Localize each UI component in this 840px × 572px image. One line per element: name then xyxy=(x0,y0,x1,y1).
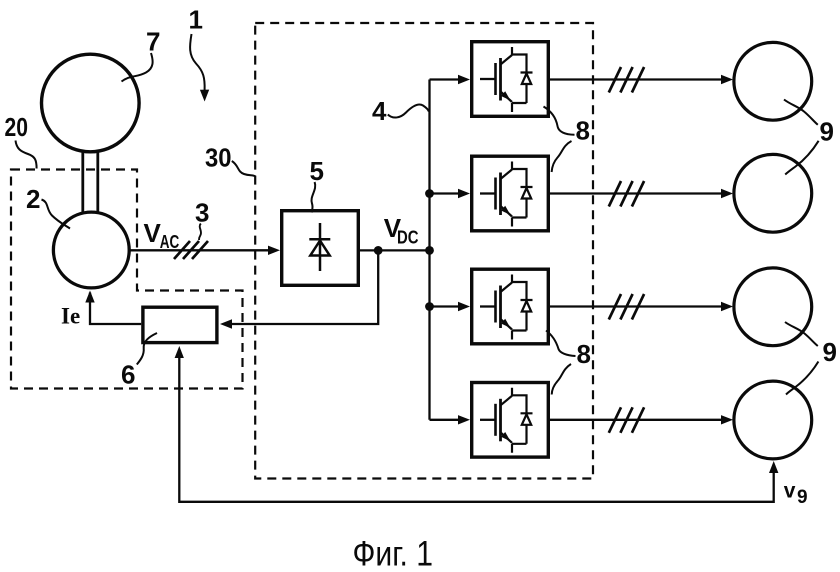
leader 8 upper to inverter U1 xyxy=(544,107,575,135)
wire bus to inverter 1 xyxy=(430,78,460,80)
slash marks on wire 1 xyxy=(609,67,644,93)
leader for 5 xyxy=(312,182,316,213)
svg-text:8: 8 xyxy=(577,339,591,369)
node VDC xyxy=(374,246,383,255)
svg-text:2: 2 xyxy=(26,184,40,214)
svg-text:Фиг. 1: Фиг. 1 xyxy=(353,535,434,572)
motor 2 (9) xyxy=(734,154,812,232)
motor 4 (9) xyxy=(734,381,812,459)
feedback wire VDC node to regulator 6 xyxy=(231,250,378,324)
rectifier 5 xyxy=(282,211,359,286)
feedback wire v9 from motor 4 to regulator 6 xyxy=(179,358,773,502)
svg-text:4: 4 xyxy=(372,96,387,126)
svg-text:DC: DC xyxy=(397,228,419,248)
slash marks on wire 4 xyxy=(609,407,644,433)
shaft xyxy=(83,151,98,212)
wire VAC from generator 2 to rectifier 5 xyxy=(131,249,269,251)
svg-text:V: V xyxy=(144,218,162,248)
svg-text:v: v xyxy=(784,480,796,503)
svg-text:1: 1 xyxy=(189,5,203,35)
dashed box 20 xyxy=(11,170,243,389)
leader for 7 xyxy=(122,53,153,82)
svg-text:9: 9 xyxy=(797,487,808,508)
wire Ie from regulator 6 to generator 2 xyxy=(90,293,141,325)
output wire inverter 1 to motor 1 xyxy=(550,78,722,80)
node on bus VDC row xyxy=(425,246,434,255)
generator 2 xyxy=(53,212,129,288)
DC bus vertical xyxy=(428,80,430,420)
node on bus row2 xyxy=(425,189,434,198)
leader for 30 xyxy=(232,161,256,177)
leader 9 upper to motor 1 xyxy=(784,100,818,125)
node on bus row3 xyxy=(425,302,434,311)
slash marks on wire 3 xyxy=(609,294,644,320)
output wire inverter 3 to motor 3 xyxy=(550,305,722,307)
svg-text:7: 7 xyxy=(146,27,160,57)
leader 9 upper to motor 2 xyxy=(785,141,818,175)
wire bus to inverter 4 xyxy=(430,419,460,421)
svg-text:Ie: Ie xyxy=(61,304,80,329)
slash marks on wire 2 xyxy=(609,181,644,207)
svg-text:20: 20 xyxy=(5,112,29,142)
leader for 20 xyxy=(16,141,37,169)
svg-text:8: 8 xyxy=(576,116,590,146)
motor 3 (9) xyxy=(734,268,812,346)
svg-text:30: 30 xyxy=(205,143,232,173)
svg-text:9: 9 xyxy=(823,337,837,367)
svg-text:9: 9 xyxy=(820,117,834,147)
svg-text:6: 6 xyxy=(121,360,135,390)
leader for 2 xyxy=(42,200,71,229)
inverter U3 (8) xyxy=(472,269,549,344)
wire bus to inverter 2 xyxy=(430,192,460,194)
output wire inverter 4 to motor 4 xyxy=(550,419,722,421)
wire bus to inverter 3 xyxy=(430,305,460,307)
leader 8 upper to inverter U2 xyxy=(552,141,572,172)
leader for 3 xyxy=(199,224,201,241)
engine 7 xyxy=(42,54,140,152)
svg-text:5: 5 xyxy=(310,156,324,186)
slash marks 3 on AC wire xyxy=(174,241,208,259)
regulator 6 xyxy=(143,307,217,342)
inverter U4 (8) xyxy=(472,383,549,458)
svg-text:3: 3 xyxy=(195,198,209,228)
svg-text:AC: AC xyxy=(160,232,180,252)
diode in rectifier xyxy=(309,223,330,271)
dashed box 30 xyxy=(255,23,593,479)
leader 9 lower to motor 4 xyxy=(786,362,818,395)
leader 8 lower to inverter U4 xyxy=(552,364,571,395)
inverter U2 (8) xyxy=(472,156,549,231)
leader 8 lower to inverter U3 xyxy=(546,331,576,357)
inverter U1 (8) xyxy=(472,42,549,117)
output wire inverter 2 to motor 2 xyxy=(550,192,722,194)
leader for 6 xyxy=(137,333,157,365)
leader for 4 xyxy=(388,105,429,118)
wire VDC from rectifier to DC bus xyxy=(360,249,430,251)
leader arrow for 1 xyxy=(190,34,205,90)
leader 9 lower to motor 3 xyxy=(785,322,818,346)
motor 1 (9) xyxy=(734,42,812,120)
